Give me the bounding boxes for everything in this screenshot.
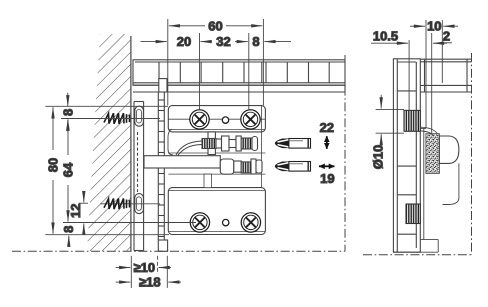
damper stipple block: [426, 134, 440, 174]
adjust symbol 19 horizontal: [319, 165, 335, 167]
svg-text:64: 64: [61, 162, 76, 177]
svg-text:10.5: 10.5: [373, 29, 398, 44]
dim >=18: [116, 256, 181, 288]
adjustment wire/lever: [168, 129, 202, 158]
svg-text:60: 60: [208, 18, 222, 33]
right view centerline border: [363, 53, 472, 255]
svg-text:22: 22: [320, 120, 334, 135]
cabinet rail top band: [133, 60, 345, 92]
dim >=10: [116, 256, 171, 288]
svg-text:8: 8: [60, 109, 75, 116]
wood screw top: [100, 113, 160, 124]
wall panel hatched section: [87, 34, 131, 251]
side adjustment arm: [144, 156, 262, 175]
svg-text:80: 80: [46, 158, 61, 172]
svg-text:12: 12: [68, 203, 83, 217]
wood screw bottom: [100, 199, 160, 210]
bracket bottom plate: [168, 188, 265, 235]
dim 64: [67, 120, 69, 222]
dim dia 10: [376, 95, 404, 146]
svg-text:10: 10: [427, 19, 441, 34]
mounting screw top-left: [190, 110, 209, 129]
euro dowel bottom (section): [406, 204, 420, 224]
left view centerline border: [12, 55, 345, 251]
screwdriver bit top: [275, 139, 311, 149]
screwdriver bit bottom: [275, 162, 311, 172]
svg-text:20: 20: [177, 34, 191, 49]
plate mid lines: [168, 153, 265, 188]
dim 2 leader: [433, 42, 452, 44]
svg-text:8: 8: [252, 34, 259, 49]
mounting screw bottom-left: [190, 213, 209, 232]
dim 60: [168, 19, 264, 106]
svg-text:19: 19: [320, 171, 334, 186]
arm outline right view: [393, 127, 459, 252]
mounting screw top-right: [241, 110, 260, 129]
svg-text:≥10: ≥10: [133, 260, 155, 275]
dim 10.5 leader: [371, 40, 409, 110]
svg-text:2: 2: [443, 28, 450, 43]
damper tab: [439, 136, 459, 163]
right view top rail section: [420, 59, 471, 92]
dim 80: [52, 107, 54, 233]
dim 8 top-left: [45, 93, 168, 132]
right view channel profile: [393, 59, 420, 252]
dim 10 (right view): [410, 20, 458, 134]
height adjustment spindle row: [202, 132, 258, 155]
dim 8 bottom-left: [45, 235, 169, 247]
rail support leg: [158, 79, 167, 252]
svg-text:32: 32: [216, 34, 230, 49]
small hole top: [222, 117, 228, 123]
svg-text:≥18: ≥18: [139, 275, 161, 290]
small hole bottom: [223, 219, 229, 225]
svg-text:Ø10: Ø10: [371, 145, 386, 170]
wall mounting profile strip: [134, 102, 144, 251]
euro dowel top (section): [404, 110, 420, 131]
dim 12: [63, 191, 196, 235]
svg-text:8: 8: [61, 226, 76, 233]
bracket top plate: [168, 106, 265, 235]
dim 20 / 32 / 8 row: [141, 33, 292, 110]
mounting screw bottom-right: [241, 213, 260, 232]
